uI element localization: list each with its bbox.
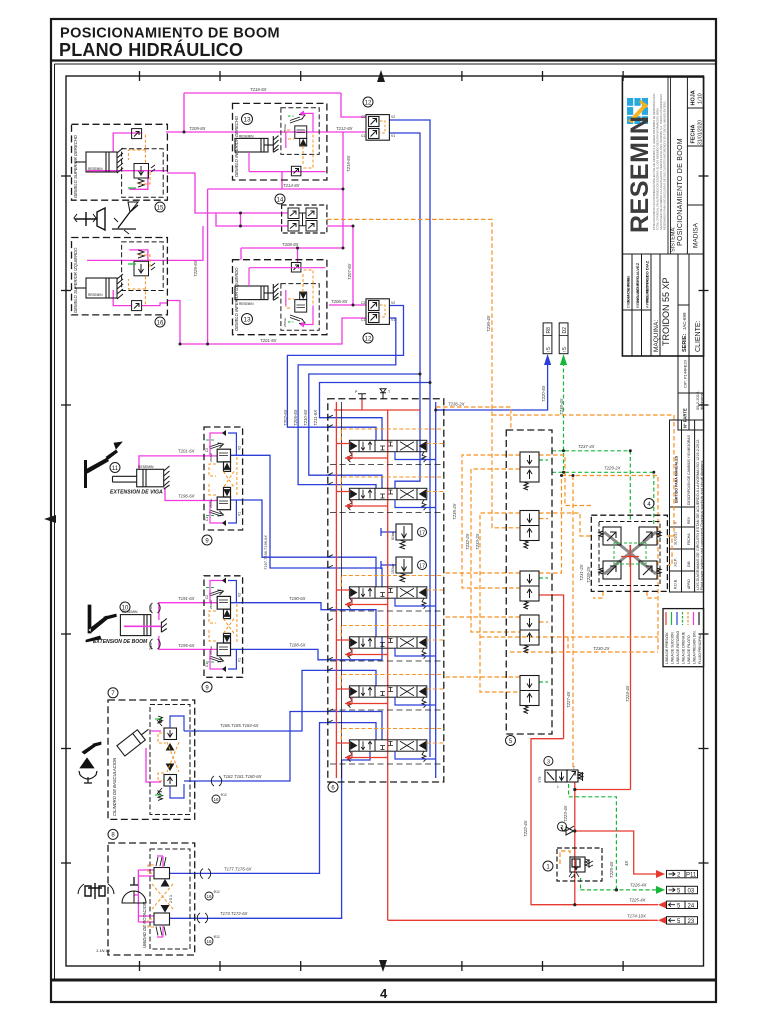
wire item chain vertical xyxy=(574,790,576,905)
wire T229-2X xyxy=(552,472,654,527)
MIDBOXES xyxy=(78,427,243,955)
svg-text:T177.T176-6X: T177.T176-6X xyxy=(224,867,252,872)
svg-text:17: 17 xyxy=(419,563,425,569)
pilot lines in 16 xyxy=(128,255,150,304)
svg-text:T238-4X: T238-4X xyxy=(559,398,564,415)
counterbalance valve box 9 (boom) xyxy=(202,576,243,692)
svg-text:T227-4X: T227-4X xyxy=(566,691,571,708)
cylinder group box 13 GEMELO INFERIOR IZQUIERDO xyxy=(233,260,327,335)
DV5 red port links xyxy=(336,689,387,706)
svg-text:EXTENSION DE VIGA: EXTENSION DE VIGA xyxy=(110,490,163,496)
wire T236-2X xyxy=(436,407,511,430)
DV6 red port links xyxy=(336,743,387,760)
shuttle block box 4 xyxy=(591,499,667,592)
svg-text:T226-4X: T226-4X xyxy=(630,883,647,888)
svg-text:13: 13 xyxy=(243,117,251,124)
svg-text:T232-2X: T232-2X xyxy=(465,533,470,550)
DV4 orange pilot stubs xyxy=(341,626,444,641)
svg-text:C2: C2 xyxy=(361,115,365,119)
svg-text:T220-8X: T220-8X xyxy=(541,385,546,402)
border ticks xyxy=(61,71,709,971)
directional valve DV1 xyxy=(348,440,427,462)
svg-text:T225-4X: T225-4X xyxy=(609,861,614,878)
wire box8 loop xyxy=(134,870,154,922)
port valve top of 15 xyxy=(132,129,142,139)
wire T174-10X drop xyxy=(388,768,649,920)
svg-text:150bar: 150bar xyxy=(391,563,395,574)
svg-text:4: 4 xyxy=(380,986,388,1001)
svg-text:UNIDAD DE ROTACION: UNIDAD DE ROTACION xyxy=(142,901,147,948)
inner margin line left xyxy=(54,64,56,980)
wire T191-6X xyxy=(159,603,217,620)
svg-text:T201-6X: T201-6X xyxy=(178,449,195,454)
svg-text:DIB: DIB xyxy=(687,561,691,567)
svg-text:V1: V1 xyxy=(238,512,242,516)
wire box4 feed b xyxy=(539,513,591,536)
DV1 blue port links xyxy=(395,452,436,460)
tiny legal text lines rotated xyxy=(652,94,667,230)
svg-text:T229-2X: T229-2X xyxy=(604,466,621,471)
wire T218-8X xyxy=(184,93,366,132)
cylinder group box 16 GEMELO SUPERIOR IZQUIERDO xyxy=(72,238,168,315)
svg-text:TOTAL O PARCIAL SIN AUTORIZACI: TOTAL O PARCIAL SIN AUTORIZACION ESCRITA… xyxy=(656,108,660,230)
svg-text:SERIE:: SERIE: xyxy=(682,333,688,352)
svg-text:T214-8X: T214-8X xyxy=(283,183,300,188)
relief valve RV17a xyxy=(391,524,427,549)
svg-text:LINEA DE RETORNO: LINEA DE RETORNO xyxy=(676,631,680,664)
svg-text:↑5: ↑5 xyxy=(562,347,568,353)
pictogram basculacion xyxy=(80,742,101,768)
svg-text:LINEA DE SUCCION: LINEA DE SUCCION xyxy=(671,632,675,664)
pilot valve PV3 xyxy=(520,571,539,609)
bank inner partitions xyxy=(330,465,442,765)
DV5 orange pilot stubs xyxy=(341,675,444,690)
wire pilot riser xyxy=(539,476,562,574)
solenoid valve 3 (Y79) xyxy=(538,757,583,790)
svg-text:LINEA DE PILOTO: LINEA DE PILOTO xyxy=(687,635,691,664)
svg-text:C2: C2 xyxy=(205,595,209,599)
wire T196-6X xyxy=(165,488,217,501)
pilot valve PV4 xyxy=(520,615,539,653)
DV3 red port links xyxy=(336,590,387,607)
wire box16 A+ xyxy=(167,301,180,345)
wire box16 B- xyxy=(167,226,203,260)
wire T209-8X / T212-8X xyxy=(166,131,366,133)
svg-text:EXTENSION DE BOOM: EXTENSION DE BOOM xyxy=(93,639,148,645)
box4 check valve BL xyxy=(599,561,621,579)
magenta internals 13b xyxy=(249,268,326,325)
svg-text:31/01/2020: 31/01/2020 xyxy=(698,120,704,145)
svg-text:16: 16 xyxy=(157,320,164,326)
svg-text:CIP: P144FE20: CIP: P144FE20 xyxy=(683,359,688,388)
wire T215-8X xyxy=(342,132,344,248)
flag 24 xyxy=(649,901,698,910)
svg-text:HOJA: HOJA xyxy=(691,90,697,105)
svg-text:FLUJO PRINCIPAL: FLUJO PRINCIPAL xyxy=(698,635,702,664)
svg-text:FECHA: FECHA xyxy=(687,533,691,545)
svg-text:T174-10X: T174-10X xyxy=(627,914,646,919)
wire box7 cylinder links xyxy=(146,731,161,782)
wire Y79 outlet xyxy=(575,782,631,790)
DV2 red port links xyxy=(336,492,387,509)
fold marks xyxy=(44,70,387,972)
svg-text:V1: V1 xyxy=(238,658,242,662)
svg-text:CLIENTE:: CLIENTE: xyxy=(695,320,702,352)
svg-text:ING. HENRY GALVEZ: ING. HENRY GALVEZ xyxy=(635,262,640,303)
wire box12a V2 long drop xyxy=(389,120,430,757)
svg-text:16: 16 xyxy=(206,894,212,899)
DV3 blue port links xyxy=(395,598,436,606)
check valve item 2 xyxy=(558,822,575,835)
svg-text:FECHA: FECHA xyxy=(691,125,697,144)
svg-text:DESCRIPCION DE CAMBIOS Y/O: DESCRIPCION DE CAMBIOS Y/O MEJORAS xyxy=(687,434,691,505)
revision table xyxy=(670,420,704,592)
wire box16 internals xyxy=(87,250,167,306)
main titleblock box xyxy=(622,77,703,356)
orange pilot network xyxy=(327,219,674,864)
svg-text:80bar: 80bar xyxy=(391,530,395,540)
pictogram viga boom xyxy=(85,442,122,473)
svg-text:T202-8X: T202-8X xyxy=(283,409,288,426)
svg-text:03: 03 xyxy=(688,889,695,895)
svg-text:250bar: 250bar xyxy=(209,453,213,462)
wire box4 bottom hooks xyxy=(593,591,657,598)
legend colored strokes xyxy=(666,612,699,625)
wire T199-6X viga xyxy=(231,455,383,587)
pilot valve box 5 xyxy=(506,430,552,734)
bank inner rails xyxy=(341,402,343,778)
svg-text:RESERVADOS PARA USO EXCLUSIVO: RESERVADOS PARA USO EXCLUSIVO DE SUS CLI… xyxy=(663,101,667,230)
svg-text:TROIDON 55 XP: TROIDON 55 XP xyxy=(661,277,671,346)
svg-text:LINEA PRESION DIN.: LINEA PRESION DIN. xyxy=(693,630,697,664)
tilt cylinder box 7 CILINDRO DE BASCULACION xyxy=(108,688,195,820)
svg-text:T231-2X: T231-2X xyxy=(579,564,584,581)
svg-text:15: 15 xyxy=(157,205,164,211)
svg-text:Φ12: Φ12 xyxy=(214,890,220,894)
red pressure network xyxy=(334,399,656,920)
svg-text:T208-8X: T208-8X xyxy=(282,242,299,247)
box4 gray cross linkage xyxy=(604,532,656,574)
signature block texts xyxy=(626,260,705,428)
wire T225-8X xyxy=(207,189,209,344)
wire T226-4X to flag 03 xyxy=(569,784,656,890)
svg-text:ING. REYNALDO DIAZ: ING. REYNALDO DIAZ xyxy=(645,260,650,303)
wire pilot valve stubs xyxy=(539,460,548,682)
svg-text:3: 3 xyxy=(547,759,550,765)
box4 green pilot loop xyxy=(614,543,646,564)
svg-text:250bar: 250bar xyxy=(283,318,287,327)
svg-text:SANCIONADO DE ACUERDO A LA LEG: SANCIONADO DE ACUERDO A LA LEGISLACION V… xyxy=(659,94,663,230)
wire box4 T224-4X drop xyxy=(630,545,632,790)
cylinder group box 13 GEMELO INFERIOR DERECHO xyxy=(233,103,327,180)
svg-text:1/10: 1/10 xyxy=(698,93,704,104)
wire pilot web b xyxy=(471,469,520,632)
svg-text:V2: V2 xyxy=(238,593,242,597)
valves in box 8 xyxy=(154,857,170,936)
svg-text:C2: C2 xyxy=(205,448,209,452)
magenta internals 13a xyxy=(249,113,326,171)
svg-text:11: 11 xyxy=(112,466,119,472)
svg-text:T210-8X: T210-8X xyxy=(303,409,308,426)
svg-text:V1: V1 xyxy=(391,134,395,138)
svg-text:T222-4X: T222-4X xyxy=(523,820,528,837)
svg-text:13: 13 xyxy=(243,317,251,324)
svg-text:T205-8X: T205-8X xyxy=(293,409,298,426)
cylinder C13a xyxy=(235,136,279,153)
title strip bottom double line xyxy=(51,59,716,61)
wire stair T202-8X xyxy=(287,306,403,441)
wire pilot web a xyxy=(462,455,520,588)
LEFTBOXES xyxy=(72,97,396,343)
svg-text:T196-6X: T196-6X xyxy=(178,494,195,499)
wire box4 feed a xyxy=(539,455,591,506)
svg-text:GEMELO SUPERIOR DERECHO: GEMELO SUPERIOR DERECHO xyxy=(73,134,78,198)
wire box15 A- to block 14 xyxy=(167,173,288,226)
pilot lines in 15 xyxy=(128,135,150,184)
svg-text:SISTEMA:: SISTEMA: xyxy=(671,226,677,252)
blue hose network xyxy=(170,120,548,918)
svg-text:↑5: ↑5 xyxy=(546,347,552,353)
svg-text:24: 24 xyxy=(688,903,695,909)
svg-text:REV: REV xyxy=(687,516,691,524)
svg-text:J.C.P.: J.C.P. xyxy=(674,558,678,567)
parts strip xyxy=(678,356,704,430)
svg-text:T211-8X: T211-8X xyxy=(313,410,318,426)
wire T231-2X loop xyxy=(562,476,659,652)
svg-text:POSICIONAMIENTO DE BOOM: POSICIONAMIENTO DE BOOM xyxy=(677,138,684,246)
svg-text:RESEMIN: RESEMIN xyxy=(239,302,254,306)
svg-text:T207-8X: T207-8X xyxy=(347,263,352,280)
relief valve RV17b xyxy=(391,557,427,582)
COLORNET xyxy=(87,87,674,945)
wire T182-6X xyxy=(184,712,382,782)
cylinder 11 extension de viga xyxy=(110,463,170,496)
svg-text:T195-6X: T195-6X xyxy=(178,643,195,648)
svg-text:23: 23 xyxy=(688,919,695,925)
directional valve DV5 xyxy=(348,686,427,708)
wire box4 right hooks xyxy=(667,536,672,565)
signature columns xyxy=(631,254,633,356)
valve block box 12 bottom xyxy=(361,299,395,343)
svg-text:RESEMIN: RESEMIN xyxy=(138,465,154,469)
wire T236-4X xyxy=(327,219,520,527)
pilot valve PV5 xyxy=(520,676,539,714)
counterbalance cartridge CB-B1 xyxy=(209,590,231,619)
wire T222-4X flag 24 feed xyxy=(531,595,649,905)
svg-text:1.1N-65: 1.1N-65 xyxy=(96,948,111,953)
DV2 orange pilot stubs xyxy=(341,477,444,492)
wire bank P rail xyxy=(334,399,420,778)
wire T173-6X xyxy=(170,751,371,918)
legend labels rotated xyxy=(665,630,702,664)
pilot valve PV2 xyxy=(520,511,539,549)
wire Y79 pilot drop xyxy=(572,476,574,770)
svg-text:diagrams: diagrams xyxy=(699,394,704,410)
DV4 red port links xyxy=(336,640,387,657)
svg-text:N° PARTE: N° PARTE xyxy=(683,408,688,428)
hose labels xyxy=(178,87,647,919)
svg-text:17: 17 xyxy=(419,530,425,536)
valve sub-box in 13a xyxy=(281,108,319,155)
wire pilot web c xyxy=(480,513,520,692)
flag 03 xyxy=(656,886,698,895)
svg-text:RESEMIN: RESEMIN xyxy=(239,135,254,139)
svg-text:PLANO HIDRÁULICO: PLANO HIDRÁULICO xyxy=(59,39,243,60)
svg-text:T235-2X: T235-2X xyxy=(452,503,457,520)
pilot valve PV1 xyxy=(520,452,539,490)
svg-text:2: 2 xyxy=(573,766,575,770)
box4 check valve BR xyxy=(639,561,661,579)
hose size markers xyxy=(197,776,227,945)
valve sub-box in 13b xyxy=(281,284,319,331)
svg-text:4X: 4X xyxy=(624,861,629,866)
directional valve DV6 xyxy=(348,740,427,762)
svg-text:T206-8X: T206-8X xyxy=(331,299,348,304)
wire T186-6X xyxy=(184,670,376,731)
svg-text:T237-4X: T237-4X xyxy=(578,444,595,449)
DV4 blue port links xyxy=(395,648,436,656)
cylinder 10 extension de boom xyxy=(93,602,167,650)
svg-text:C1: C1 xyxy=(361,318,365,322)
svg-text:T236-2X: T236-2X xyxy=(448,402,465,407)
svg-text:1: 1 xyxy=(557,785,559,789)
svg-text:D2: D2 xyxy=(562,327,568,334)
wire stair T210-8X xyxy=(309,374,420,488)
svg-text:T212-8X: T212-8X xyxy=(336,126,353,131)
pilot cross lines in box 9a xyxy=(209,457,237,497)
RIGHTITEMS xyxy=(538,323,698,925)
CENTERBANK xyxy=(328,389,668,792)
svg-text:C2: C2 xyxy=(361,301,365,305)
wire stair T205-8X xyxy=(298,318,396,488)
wire item1 pilot hook xyxy=(560,851,570,864)
DV6 orange pilot stubs xyxy=(341,729,444,744)
svg-text:RESEMIN: RESEMIN xyxy=(88,167,103,171)
bottom thick line xyxy=(51,979,716,982)
box4 red center line xyxy=(621,545,639,567)
svg-text:T173.T172-6X: T173.T172-6X xyxy=(220,911,248,916)
wire pilot stubs xyxy=(539,519,548,623)
svg-text:R8: R8 xyxy=(546,327,552,334)
DV2 blue port links xyxy=(395,500,436,508)
drain port square 13a xyxy=(291,166,301,176)
svg-text:GEMELO SUPERIOR IZQUIERDO: GEMELO SUPERIOR IZQUIERDO xyxy=(73,247,78,313)
directional valve DV3 xyxy=(348,587,427,609)
svg-text:JAC-699: JAC-699 xyxy=(682,312,687,330)
DV1 orange pilot stubs xyxy=(341,429,444,444)
revision table texts xyxy=(674,434,705,590)
svg-text:V1: V1 xyxy=(391,318,395,322)
svg-text:V2: V2 xyxy=(391,301,395,305)
valves in box 7 xyxy=(157,716,177,800)
pictogram boom ext xyxy=(86,605,117,642)
flag P11 xyxy=(656,870,698,879)
flag 23 xyxy=(649,916,698,925)
counterbalance cartridge CB-A1 xyxy=(209,443,231,471)
svg-text:250bar: 250bar xyxy=(209,499,213,508)
wire T198-6X viga xyxy=(231,500,377,587)
port loops in box 9b xyxy=(210,581,223,670)
wire flag P11 feed xyxy=(575,831,656,874)
svg-text:T224-4X: T224-4X xyxy=(625,685,630,702)
svg-text:V2: V2 xyxy=(391,115,395,119)
svg-text:T190-6X: T190-6X xyxy=(289,596,306,601)
wire bank blue verticals xyxy=(436,402,444,778)
pressure reducing item 1 xyxy=(543,848,602,881)
svg-text:T225-4X: T225-4X xyxy=(629,898,646,903)
tilt cylinder body xyxy=(117,724,153,756)
svg-text:RESEMIN: RESEMIN xyxy=(88,293,103,297)
wire T237-4X xyxy=(552,451,630,522)
svg-text:LINEA DE PRESION: LINEA DE PRESION xyxy=(665,632,669,664)
check valve block box 14 xyxy=(275,194,327,233)
svg-text:Φ12: Φ12 xyxy=(221,793,227,797)
svg-text:T191-6X: T191-6X xyxy=(178,596,195,601)
RESEMIN logo xyxy=(627,98,649,125)
title text xyxy=(59,26,388,1002)
pictogram drill positioner xyxy=(74,208,105,230)
wire T220-8X to flag R8 xyxy=(436,362,548,410)
svg-text:250bar: 250bar xyxy=(209,646,213,655)
wire T230-2X pair xyxy=(480,637,658,652)
wire T238-4X flag D2 drop xyxy=(563,362,565,472)
svg-text:CILINDRO DE BASCULACION: CILINDRO DE BASCULACION xyxy=(112,757,117,816)
svg-text:T186.T185.T184-6X: T186.T185.T184-6X xyxy=(220,723,259,728)
drain port square 13b xyxy=(291,263,301,273)
TITLEBLOCK xyxy=(622,77,704,667)
svg-text:Fluid power systems and compon: Fluid power systems and component-Graphi… xyxy=(700,461,704,590)
valve block box 12 top xyxy=(361,97,395,140)
svg-text:T188-6X: T188-6X xyxy=(289,643,306,648)
cylinder C15 xyxy=(75,148,123,173)
wire T207-8X / T206-8X xyxy=(327,226,366,305)
DV3 orange pilot stubs xyxy=(341,576,444,591)
wire T201-6X xyxy=(139,456,217,469)
wire T208-8X xyxy=(241,248,343,263)
green suction network xyxy=(539,362,656,890)
svg-text:T225-8X: T225-8X xyxy=(193,260,198,277)
svg-text:EMITIDO PARA MANUALES: EMITIDO PARA MANUALES xyxy=(675,455,679,503)
svg-text:C1: C1 xyxy=(205,517,209,521)
counterbalance valve box 9 (viga) xyxy=(202,427,243,545)
wire stair T211-8X xyxy=(320,383,431,441)
rotary actuator pictogram xyxy=(78,877,146,903)
svg-text:MADISA: MADISA xyxy=(693,222,700,248)
svg-text:16: 16 xyxy=(206,939,212,944)
directional valve DV4 xyxy=(348,637,427,659)
wire T236-4X upper ring xyxy=(492,415,674,536)
svg-text:31/01/20: 31/01/20 xyxy=(674,532,678,545)
main valve bank box 6 xyxy=(328,399,444,782)
port valve bottom of 16 xyxy=(132,301,142,311)
svg-text:T209-8X: T209-8X xyxy=(189,126,206,131)
svg-text:2:5.1: 2:5.1 xyxy=(169,895,173,903)
svg-text:T201-8X: T201-8X xyxy=(260,338,277,343)
svg-text:12: 12 xyxy=(365,336,372,342)
SISTEMA column xyxy=(671,90,704,252)
pictogram boom xyxy=(112,202,138,234)
svg-text:RESEMIN: RESEMIN xyxy=(122,610,138,614)
wire T188-6X xyxy=(231,637,383,660)
wire T177-6X xyxy=(170,723,377,874)
svg-text:ESTE DOCUMENTO ES PROPIEDAD IN: ESTE DOCUMENTO ES PROPIEDAD INTELECTUAL … xyxy=(652,94,656,230)
cylinder C13b xyxy=(235,284,279,301)
svg-text:T223-4X: T223-4X xyxy=(563,805,568,822)
DV6 blue port links xyxy=(395,751,436,759)
svg-text:R.D.B.: R.D.B. xyxy=(674,579,678,589)
svg-text:T218-8X: T218-8X xyxy=(250,87,267,92)
wire box15 internals xyxy=(87,133,167,189)
